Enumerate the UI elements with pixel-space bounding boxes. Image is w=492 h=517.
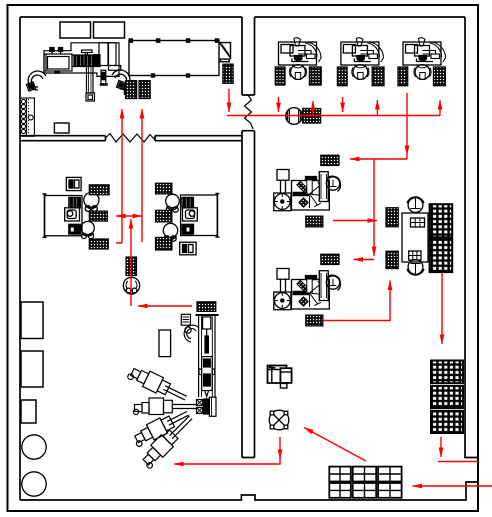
robot arm arc left [27, 71, 46, 91]
vertical press tower [196, 315, 219, 397]
pallet left 3 [156, 237, 172, 250]
small grid top [411, 218, 425, 227]
small table left [54, 123, 69, 133]
transfer cart circle [286, 108, 303, 125]
office desk [268, 366, 292, 389]
injection machine platform [44, 43, 121, 101]
small grid bottom [409, 251, 421, 260]
wire vertical to station G [373, 159, 375, 256]
robot arm left [133, 398, 196, 415]
red flow lines [116, 89, 492, 486]
robot arm lower-left shallow [131, 406, 192, 448]
machine post 1 [51, 52, 53, 55]
crate c3r1 [378, 467, 402, 482]
wire arrow left to desk pallet [116, 215, 131, 217]
storage rack 1 [21, 302, 43, 339]
round tank 2 [22, 472, 46, 496]
feeder legs [281, 180, 286, 193]
wire ws1 up arrow [312, 101, 314, 116]
desk station right [156, 183, 220, 255]
black unit [182, 224, 194, 234]
left inner wall [19, 17, 21, 500]
top inner wall right room [255, 16, 466, 18]
pallet left 2 [156, 210, 172, 222]
assembly workstation 2 [337, 38, 384, 86]
work table rect [159, 330, 171, 357]
wire lower grid to door [440, 437, 442, 457]
feed port T [82, 50, 93, 53]
grid stack right 1 [431, 361, 463, 384]
barrel end block [95, 55, 99, 67]
wire incoming arrow bottom [413, 485, 492, 487]
horizontal wall band left [20, 136, 106, 141]
machine body [292, 181, 330, 211]
rotor star [293, 176, 324, 208]
horizontal wall band right [155, 136, 242, 141]
wire spool pallet [126, 257, 137, 276]
crate c1r2 [329, 483, 351, 498]
wire pallet down to main line [228, 89, 230, 112]
inspection station G [386, 197, 452, 275]
chair bottom [408, 260, 423, 275]
desk [402, 213, 428, 262]
middle wall break zigzag [245, 95, 254, 129]
worker bottom [81, 221, 94, 234]
operator chair [326, 177, 339, 190]
robot cell console [181, 314, 190, 325]
monitor box [65, 208, 80, 221]
robot cell pallet [197, 302, 216, 312]
barrel fins [74, 56, 76, 67]
wire ws2 up arrow [376, 100, 378, 116]
machine post 2 [60, 52, 62, 55]
wire arrow right to desk pallet [131, 215, 142, 217]
printer table below [180, 242, 196, 255]
right inner wall panel [465, 17, 478, 458]
turntable box [274, 193, 291, 211]
pallet left 2 [386, 251, 398, 268]
platform step [109, 66, 121, 71]
worker top [166, 194, 180, 208]
wire ws1 down arrow [278, 97, 280, 112]
machine column stripes [69, 198, 81, 208]
pallet right 3 [89, 239, 108, 249]
pallet right 1 [89, 185, 109, 195]
wire main top line [227, 115, 440, 117]
pallet below conveyor 2 [139, 81, 150, 99]
pallet right [309, 67, 321, 85]
crate block bottom c1r1 [329, 467, 401, 498]
assembly workstation 3 [398, 38, 446, 86]
pallet below conveyor 1 [125, 81, 137, 99]
chair top [408, 198, 423, 213]
wire arrow up to ws3 pallet [439, 100, 441, 116]
crate c2r2 [353, 483, 377, 498]
bottom inner wall with notch [20, 482, 478, 500]
storage rectangle top B [94, 22, 125, 38]
column 2 [109, 43, 117, 66]
storage rack 2 [21, 351, 43, 387]
side bin [101, 70, 106, 84]
machine base tick [55, 71, 60, 73]
pallet left [275, 67, 285, 85]
pallet below [306, 216, 323, 227]
CNC star machine 1 [274, 155, 341, 227]
storage rectangle top A [60, 22, 91, 38]
wire star2 pallet elbow up [323, 281, 390, 321]
printer table [66, 177, 81, 190]
robot arm upper-left [127, 363, 190, 405]
robot cell operator [184, 325, 199, 342]
conveyor end chute triangle [220, 43, 231, 58]
assembly workstation 1 [275, 38, 321, 85]
robot arm lower-left steep [138, 411, 197, 470]
robot arm arc right [112, 70, 130, 89]
wire star1 pallet to vertical [333, 220, 377, 222]
wire to robot cell left [174, 451, 280, 464]
grid pallet right 1 [430, 204, 453, 237]
pallet above [321, 155, 339, 165]
grid stack right 2 [431, 386, 463, 408]
crate c3r2 [378, 483, 402, 498]
wire to star machine 1 pallet [350, 158, 407, 160]
hopper end box [86, 93, 95, 101]
grid pallet right 2 [430, 239, 453, 272]
transfer cart pallet [303, 109, 321, 124]
wire spool reel [123, 277, 139, 294]
wire grid pallets down [441, 273, 443, 344]
wire arrow to station G pallet [354, 259, 375, 261]
wire robot cell to spool [138, 305, 192, 307]
pallet right 2 [89, 211, 107, 221]
wire round table down [279, 437, 281, 459]
monitor box [183, 208, 198, 221]
top inner wall left room [20, 16, 242, 18]
machine body [44, 54, 72, 71]
round tank 1 [22, 435, 46, 459]
pallet left 1 [386, 208, 398, 227]
middle wall upper segment [242, 17, 255, 95]
column 1 [99, 43, 108, 66]
wire ws3 line down [406, 93, 408, 159]
heater barrel [72, 55, 100, 67]
desk station left [43, 177, 110, 249]
round table X [269, 410, 289, 430]
grid stack right 3 [431, 411, 463, 433]
wire flow conveyor pallets up-right [141, 109, 143, 242]
wall rack with rolls [21, 98, 35, 136]
conveyor line [129, 39, 231, 77]
machine column stripes [182, 198, 194, 208]
black unit [69, 224, 81, 234]
desk [45, 196, 83, 236]
feeder square [277, 170, 289, 181]
wire ws2 down arrow [342, 97, 344, 112]
middle wall lower segment [242, 131, 255, 458]
storage rack 3 [21, 400, 36, 423]
wire spool up arrow [130, 219, 132, 306]
crate c2r1 [353, 467, 377, 482]
wire diagonal to round table [304, 428, 366, 462]
worker top [84, 192, 99, 207]
worker bottom [163, 223, 177, 237]
wall band zigzag break [106, 134, 156, 143]
wire door exit [438, 461, 478, 463]
top magazine black [306, 177, 317, 181]
chair operator [292, 65, 304, 68]
CNC star machine 2 [274, 254, 341, 326]
hopper rail down [87, 67, 94, 94]
pallet right of conveyor [223, 64, 233, 83]
pallet left 1 [156, 183, 172, 194]
robot hub [197, 397, 217, 416]
desk [181, 195, 218, 236]
wire flow conveyor pallets up-left [116, 109, 122, 243]
